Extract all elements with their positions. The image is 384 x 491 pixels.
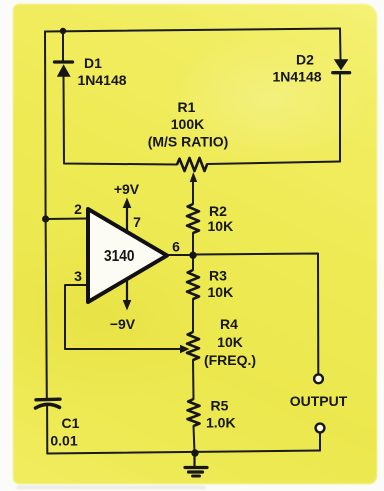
wire: node 6 to output terminal bbox=[193, 254, 318, 375]
svg-text:2: 2 bbox=[74, 201, 82, 217]
wire: R5 to bottom rail bbox=[194, 426, 195, 453]
svg-text:10K: 10K bbox=[217, 334, 243, 350]
wire: op-amp output pin 6 to node bbox=[168, 254, 193, 256]
wire: R3 to R4 bbox=[192, 299, 194, 332]
R1 wiper arrow bbox=[190, 172, 197, 182]
node 6 junction dot bbox=[189, 252, 196, 259]
wire: D2 cathode down to R1 rail bbox=[339, 75, 341, 162]
capacitor C1 bbox=[36, 399, 61, 408]
svg-text:D1: D1 bbox=[84, 55, 102, 71]
wire: R4 to R5 bbox=[192, 360, 195, 399]
wire: R2 to node 6 bbox=[192, 233, 194, 255]
diode D1 bbox=[55, 62, 73, 77]
wire: pin 3 feedback to R4 wiper bbox=[65, 285, 182, 349]
svg-text:3: 3 bbox=[74, 268, 82, 284]
+9V supply arrow bbox=[123, 198, 132, 233]
diode D2 bbox=[333, 59, 350, 72]
svg-text:+9V: +9V bbox=[114, 181, 140, 197]
upper output terminal bbox=[314, 374, 323, 383]
node: pin 2 junction dot on left rail bbox=[42, 215, 49, 222]
op-amp U1 3140 bbox=[88, 209, 167, 302]
ground bbox=[185, 453, 207, 477]
wire: R1 wiper to R2 bbox=[192, 177, 194, 204]
wire: D1 to R1 rail bbox=[64, 77, 178, 165]
wire: node 6 to R3 bbox=[192, 255, 194, 270]
svg-text:−9V: −9V bbox=[110, 316, 136, 332]
svg-text:R5: R5 bbox=[211, 398, 229, 414]
wire: left rail (top rail to C1) bbox=[45, 32, 47, 398]
wire: bottom rail bbox=[47, 451, 320, 454]
svg-text:R4: R4 bbox=[220, 316, 238, 332]
resistor R5 bbox=[188, 399, 200, 426]
svg-text:OUTPUT: OUTPUT bbox=[290, 393, 348, 409]
svg-text:0.01: 0.01 bbox=[50, 433, 77, 449]
wire: inverting input pin 2 from left rail bbox=[46, 218, 87, 221]
svg-text:6: 6 bbox=[172, 239, 180, 255]
wire: D1 branch from top rail bbox=[62, 31, 64, 61]
wire: D2 branch from top rail bbox=[339, 29, 342, 60]
resistor R1 (potentiometer) bbox=[177, 158, 207, 171]
wire: top rail bbox=[45, 29, 340, 32]
R4 wiper arrow head bbox=[180, 345, 190, 354]
svg-text:(M/S RATIO): (M/S RATIO) bbox=[148, 134, 229, 150]
svg-text:1.0K: 1.0K bbox=[206, 415, 236, 431]
svg-text:7: 7 bbox=[133, 214, 141, 230]
svg-text:100K: 100K bbox=[171, 116, 204, 132]
lower output terminal bbox=[316, 424, 325, 433]
svg-text:1N4148: 1N4148 bbox=[77, 72, 126, 88]
resistor R3 bbox=[187, 270, 199, 299]
node: top-left junction dot bbox=[60, 28, 66, 34]
wire: lower output terminal stub to bottom rail bbox=[319, 433, 321, 451]
node: bottom rail ground junction dot bbox=[191, 449, 198, 456]
resistor R2 bbox=[187, 204, 199, 233]
wire: C1 to bottom rail bbox=[46, 407, 48, 454]
svg-text:10K: 10K bbox=[208, 218, 234, 234]
svg-text:C1: C1 bbox=[62, 415, 80, 431]
svg-text:3140: 3140 bbox=[104, 248, 135, 265]
svg-text:R1: R1 bbox=[178, 99, 196, 115]
wire: R1 rail right segment to D2 branch bbox=[207, 162, 340, 165]
svg-text:1N4148: 1N4148 bbox=[272, 69, 321, 85]
svg-text:R2: R2 bbox=[209, 203, 227, 219]
-9V supply arrow bbox=[123, 279, 132, 311]
svg-text:(FREQ.): (FREQ.) bbox=[204, 352, 256, 368]
svg-text:10K: 10K bbox=[208, 284, 234, 300]
svg-text:D2: D2 bbox=[296, 52, 314, 68]
svg-text:R3: R3 bbox=[209, 268, 227, 284]
resistor R4 (potentiometer) bbox=[187, 332, 199, 360]
